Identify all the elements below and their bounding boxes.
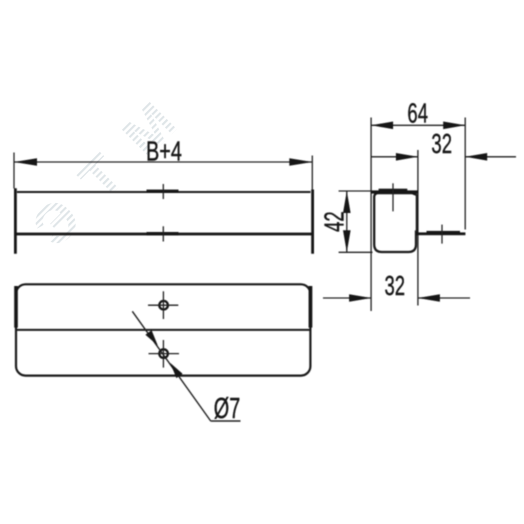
svg-text:Ø7: Ø7 bbox=[214, 394, 240, 425]
svg-text:42: 42 bbox=[320, 211, 351, 232]
section: dimension 42 up arrowhead bbox=[343, 191, 351, 213]
side view: dimension B+4 right arrowhead bbox=[289, 158, 312, 166]
section: dimension 32 (bottom) right tail line bbox=[418, 297, 470, 299]
top view: hole H1 circle bbox=[159, 301, 168, 310]
section: hole dash on cover top bbox=[379, 189, 408, 192]
svg-text:32: 32 bbox=[431, 129, 452, 160]
side view: dimension B+4 right extension line bbox=[311, 156, 313, 191]
top view: right crimp edge bar bbox=[309, 286, 313, 328]
section: dimension 42 line bbox=[346, 191, 348, 252]
top view: hole H2 circle bbox=[159, 349, 168, 358]
section: dimension 64 line bbox=[371, 124, 465, 126]
section: dimension 64 right arrowhead bbox=[443, 122, 465, 130]
section: dimension 32 (bottom) left tail line bbox=[323, 297, 371, 299]
section: flange thick line bbox=[416, 232, 466, 235]
section: hole centre line through cover top bbox=[392, 183, 394, 211]
section: dimension 32 (bottom) left arrowhead pointing right bbox=[349, 294, 371, 302]
side view: hole centre tick on top edge bbox=[162, 184, 164, 199]
section: dimension 42 down arrowhead bbox=[343, 230, 351, 252]
section: dimension 32 (bottom) right arrowhead pointing left bbox=[418, 294, 440, 302]
side view: top edge line bbox=[17, 191, 311, 193]
top view: hole H2 vertical centre line bbox=[162, 340, 164, 368]
section: hole centre tick on flange bbox=[441, 225, 443, 244]
side view: hole dash on bottom edge bbox=[147, 232, 179, 235]
top view: hole H1 horizontal centre line bbox=[148, 304, 178, 306]
side view: bottom edge thick line bbox=[15, 233, 313, 236]
side view: left flange edge bbox=[14, 188, 17, 254]
svg-text:B+4: B+4 bbox=[146, 136, 182, 167]
section: dimension 32 (top) right arrowhead pointing left bbox=[465, 153, 487, 161]
section: dimension 42 top extension line bbox=[339, 190, 372, 192]
leader shelf line bbox=[211, 420, 241, 422]
side view: right flange edge bbox=[311, 190, 314, 254]
leader upper arrowhead bbox=[145, 330, 157, 345]
section: hole dash on flange bbox=[427, 231, 461, 234]
section: dimension 32 (top) left tail line bbox=[371, 156, 418, 158]
section: extension line at flange tip (64 and upper 32) bbox=[464, 118, 466, 230]
leader line for Ø7 bbox=[132, 311, 210, 421]
section: extension line at profile right (upper and lower 32) bbox=[417, 150, 419, 306]
side view: dimension B+4 line bbox=[14, 161, 312, 163]
top view: left crimp edge bar bbox=[14, 286, 18, 328]
top view: hole H1 vertical centre line bbox=[162, 291, 164, 319]
side view: hole dash on top edge bbox=[147, 190, 179, 193]
svg-text:32: 32 bbox=[385, 271, 406, 302]
top view: cover outline rounded rectangle bbox=[16, 284, 310, 375]
section: extension line at profile left (64 and lower 32) bbox=[370, 118, 372, 312]
section: cover top thick bar bbox=[371, 190, 418, 193]
side view: dimension B+4 left arrowhead bbox=[14, 158, 37, 166]
section: profile body outline bbox=[374, 193, 417, 252]
svg-text:64: 64 bbox=[407, 99, 428, 130]
section: dimension 32 (top) right tail line bbox=[465, 156, 516, 158]
top view: middle fold line bbox=[16, 329, 310, 331]
side view: dimension B+4 left extension line bbox=[13, 153, 15, 189]
top view: hole H2 horizontal centre line bbox=[149, 353, 180, 355]
section: dimension 32 (top) left arrowhead pointing right bbox=[396, 153, 418, 161]
leader lower arrowhead bbox=[170, 363, 182, 378]
section: dimension 42 bottom extension line bbox=[339, 251, 373, 253]
side view: hole centre tick on bottom edge bbox=[162, 226, 164, 241]
section: dimension 64 left arrowhead bbox=[371, 122, 393, 130]
